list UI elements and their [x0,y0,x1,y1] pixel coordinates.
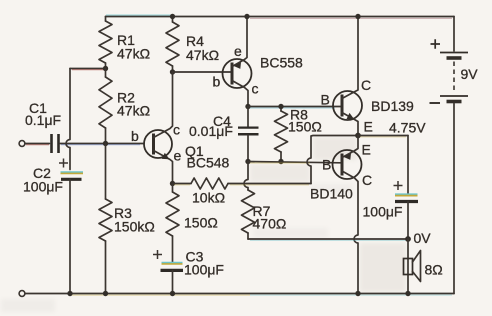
svg-text:150kΩ: 150kΩ [114,219,155,235]
wire feedback riser to output node (hop over BD140 base wire) [307,136,358,184]
wire C3 to ground rail [172,270,174,293]
svg-text:BC558: BC558 [260,55,303,71]
junction R3-ground [103,291,108,296]
junction R1-R2 [103,66,108,71]
svg-text:BD139: BD139 [371,98,414,114]
svg-text:C: C [361,77,371,93]
junction C2-ground [67,291,72,296]
node ground terminal [19,291,25,297]
junction R4 top rail [170,14,175,19]
svg-text:4.75V: 4.75V [389,120,426,136]
svg-text:B: B [322,157,331,173]
svg-text:B: B [321,92,330,108]
junction BC558 emitter rail [244,14,249,19]
node input terminal [19,141,25,147]
svg-text:100μF: 100μF [363,204,403,220]
svg-text:47kΩ: 47kΩ [186,47,219,63]
junction C4 bottom node [245,159,250,164]
svg-text:E: E [362,142,371,158]
resistor R4 47k [166,17,219,73]
capacitor C2 [23,159,83,195]
svg-text:b: b [131,128,139,144]
svg-text:e: e [174,148,182,164]
wire +9V top rail [106,15,455,18]
resistor R8 150 [275,107,322,162]
junction 0V node [405,236,411,242]
svg-text:10kΩ: 10kΩ [192,190,225,206]
resistor 150 ohm emitter [166,184,218,264]
junction R4-collector-base node [170,69,175,74]
wire output node to C5 [358,136,408,137]
wire input to C1 [25,144,50,145]
svg-text:BD140: BD140 [310,186,353,202]
junction speaker ground [405,291,410,296]
svg-text:0.01μF: 0.01μF [189,123,233,139]
speaker LS1 8 ohm [404,251,443,282]
capacitor C1 [25,100,61,153]
wire C1 to Q1 base [60,144,144,145]
svg-text:BC548: BC548 [187,155,230,171]
svg-text:E: E [364,119,373,135]
capacitor C5 100uF output [363,136,419,220]
junction Q1 emitter node [170,181,175,186]
junction R8 top [278,104,283,109]
svg-text:100μF: 100μF [23,179,63,195]
junction output node [355,133,361,139]
junction BC558 collector node [245,104,250,109]
svg-text:c: c [173,122,180,138]
svg-text:100μF: 100μF [184,262,224,278]
battery B1 9V [430,17,479,294]
wire divider node to C2 (crossover hop at input wire) [66,69,70,170]
resistor 10k feedback [191,178,228,206]
resistor R3 150k [99,144,155,294]
svg-text:c: c [252,81,259,97]
svg-text:9V: 9V [461,66,479,82]
wire 10k to feedback riser [228,184,311,185]
svg-text:C: C [362,172,372,188]
svg-text:470Ω: 470Ω [253,216,287,232]
junction BD140 collector ground [355,291,360,296]
capacitor C3 [153,249,224,278]
svg-text:0.1μF: 0.1μF [25,112,61,128]
svg-text:150Ω: 150Ω [288,119,322,135]
svg-text:150Ω: 150Ω [184,215,218,231]
svg-text:47kΩ: 47kΩ [117,46,150,62]
wire R7 to 0V output node [248,239,408,240]
wire Q1 emitter to 10k [173,184,192,185]
resistor R2 47k [99,69,150,144]
transistor U2 BC558 [213,17,304,107]
wire node B to R7 (hop over feedback wire) [244,162,248,191]
wire to BC558 base [173,71,231,73]
capacitor C4 0.01uF [189,107,259,162]
resistor R7 470 [242,190,287,239]
wire C2 to ground rail [69,179,71,293]
transistor Q3 BD139 [321,17,415,136]
wire C5 to 0V node [407,202,409,240]
wire 0V bottom rail [22,294,454,296]
junction BD139 collector rail [355,14,360,19]
svg-text:e: e [234,43,242,59]
junction C3-ground [170,291,175,296]
wire 0V node to speaker [407,239,409,294]
transistor Q4 BD140 [310,136,372,294]
wire BC558 collector to BD139 base [248,107,341,109]
junction R8 bottom [278,159,283,164]
svg-text:b: b [213,74,221,90]
svg-text:8Ω: 8Ω [425,262,443,278]
wire C4/R8 node to BD140 base [248,162,341,164]
transistor Q1 BC548 [131,72,230,184]
resistor R1 47k [99,17,150,69]
svg-text:47kΩ: 47kΩ [117,103,150,119]
wire R1/R2 junction to C2 branch [70,69,106,70]
svg-text:0V: 0V [414,230,432,246]
junction base node [103,141,108,146]
